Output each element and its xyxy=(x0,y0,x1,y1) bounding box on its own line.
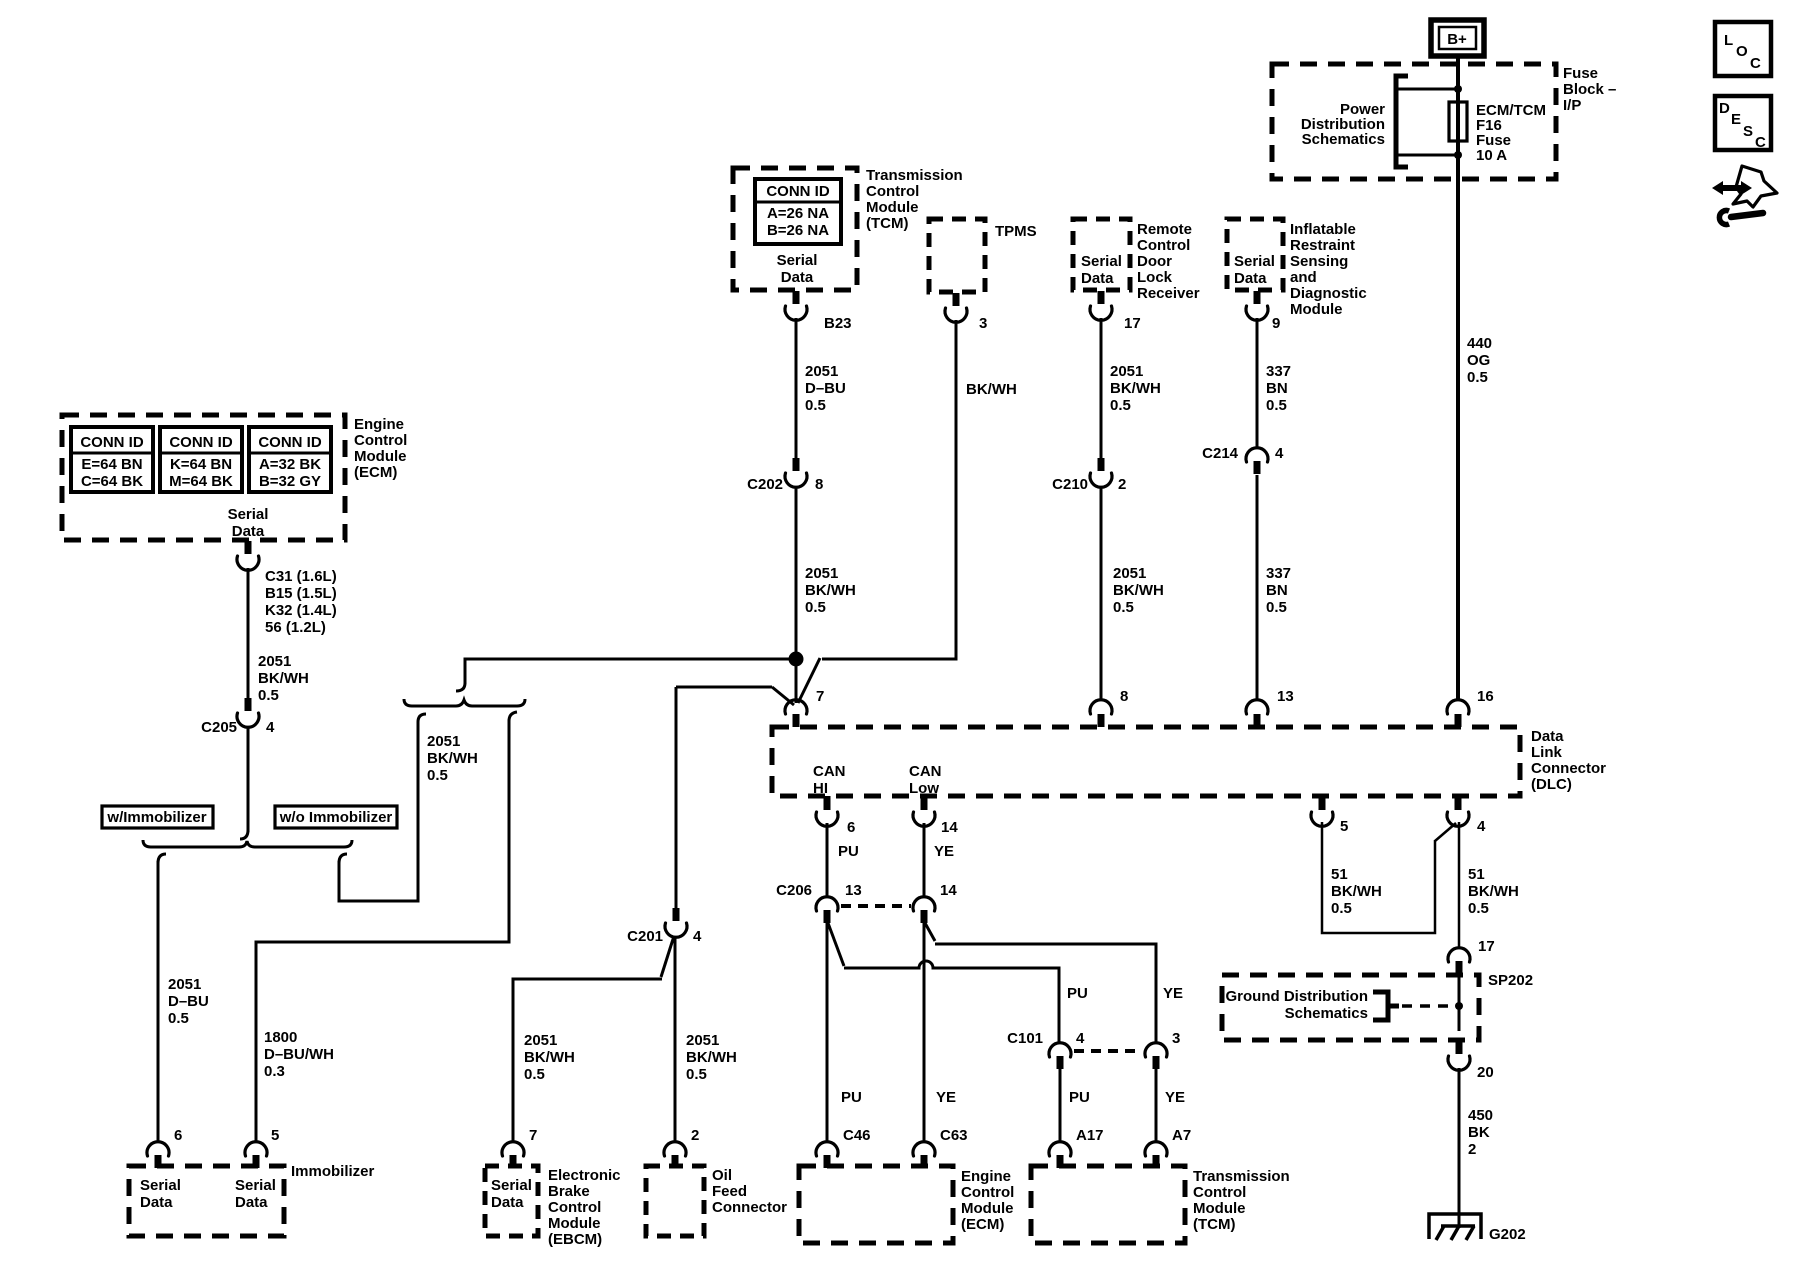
wire label 2051 BK/WH 0.5 xyxy=(258,653,309,704)
wire label 2051 D-BU 0.5 xyxy=(168,976,209,1027)
wire B+ to DLC pin 16 (440 OG) xyxy=(1456,56,1460,701)
svg-text:BK: BK xyxy=(1468,1124,1490,1141)
ground distribution bracket xyxy=(1373,992,1399,1020)
svg-text:Restraint: Restraint xyxy=(1290,237,1355,254)
svg-text:16: 16 xyxy=(1477,688,1494,705)
wire C206 14 to ECM C63 (YE) xyxy=(923,923,926,1143)
connector C210 pin 2 xyxy=(1052,458,1126,493)
svg-text:(TCM): (TCM) xyxy=(1193,1216,1235,1233)
splice SP202 pin 17 connector xyxy=(1448,938,1495,974)
splice box pin 20 connector xyxy=(1448,1041,1494,1081)
wire TPMS pin 3 down (BK/WH) xyxy=(822,320,956,659)
svg-text:Control: Control xyxy=(354,432,407,449)
wire diagonal into DLC pin 7 from right xyxy=(798,658,820,703)
connector C202 pin 8 xyxy=(747,458,823,493)
svg-text:0.5: 0.5 xyxy=(524,1066,545,1083)
ECM pin C63 connector xyxy=(913,1127,968,1168)
svg-text:D–BU: D–BU xyxy=(805,380,846,397)
svg-text:D–BU/WH: D–BU/WH xyxy=(264,1046,334,1063)
svg-text:Serial: Serial xyxy=(491,1177,532,1194)
svg-text:14: 14 xyxy=(941,819,958,836)
DLC CAN HI label xyxy=(813,763,846,797)
option brace lower xyxy=(143,840,352,847)
remote control door lock receiver serial data dashed box xyxy=(1073,219,1130,290)
svg-text:2051: 2051 xyxy=(258,653,291,670)
EBCM module label xyxy=(548,1167,621,1248)
w/o Immobilizer option box xyxy=(275,806,397,828)
svg-text:OG: OG xyxy=(1467,352,1490,369)
transmission control module (TCM) dashed box xyxy=(733,168,857,290)
svg-text:Module: Module xyxy=(548,1215,601,1232)
svg-text:440: 440 xyxy=(1467,335,1492,352)
svg-text:I/P: I/P xyxy=(1563,97,1581,114)
ECM CONN ID table K/M xyxy=(160,427,242,492)
svg-text:E=64 BN: E=64 BN xyxy=(81,456,142,473)
svg-text:Module: Module xyxy=(354,448,407,465)
svg-text:2051: 2051 xyxy=(168,976,201,993)
svg-text:2051: 2051 xyxy=(1110,363,1143,380)
svg-text:51: 51 xyxy=(1468,866,1485,883)
svg-text:S: S xyxy=(1743,123,1753,140)
svg-text:C: C xyxy=(1750,55,1761,72)
svg-text:6: 6 xyxy=(174,1127,182,1144)
svg-text:0.5: 0.5 xyxy=(805,599,826,616)
svg-text:Electronic: Electronic xyxy=(548,1167,621,1184)
wire bracket to fuse top xyxy=(1398,88,1458,91)
wire diagonal into DLC pin 7 from left xyxy=(772,687,794,705)
svg-text:BK/WH: BK/WH xyxy=(524,1049,575,1066)
svg-text:Low: Low xyxy=(909,780,939,797)
svg-text:17: 17 xyxy=(1478,938,1495,955)
wire C201 branch horizontal xyxy=(676,686,772,689)
wire label 337 BN 0.5 xyxy=(1266,565,1291,616)
svg-text:Link: Link xyxy=(1531,744,1562,761)
pin variant label C31/B15/K32/56 xyxy=(265,568,337,636)
immobilizer pin 6 connector xyxy=(147,1127,182,1168)
wire w/Immobilizer branch to pin 6 (2051 D-BU) xyxy=(158,854,166,1143)
battery feed B+ symbol xyxy=(1431,20,1484,56)
svg-text:Data: Data xyxy=(1531,728,1564,745)
svg-text:SP202: SP202 xyxy=(1488,972,1533,989)
wire label 2051 BK/WH 0.5 xyxy=(686,1032,737,1083)
ground distribution schematics dashed box xyxy=(1222,975,1479,1040)
svg-text:7: 7 xyxy=(816,688,824,705)
wire ECM pin down xyxy=(247,568,250,698)
svg-text:Remote: Remote xyxy=(1137,221,1192,238)
TPMS pin 3 connector xyxy=(945,293,987,332)
svg-text:CONN ID: CONN ID xyxy=(80,434,144,451)
svg-text:Data: Data xyxy=(1234,270,1267,287)
ECM module label xyxy=(354,416,407,481)
svg-text:56 (1.2L): 56 (1.2L) xyxy=(265,619,326,636)
wire through splice box xyxy=(1458,975,1461,1031)
svg-text:Fuse: Fuse xyxy=(1563,65,1598,82)
svg-text:Brake: Brake xyxy=(548,1183,590,1200)
svg-text:Data: Data xyxy=(140,1194,173,1211)
svg-text:0.5: 0.5 xyxy=(1331,900,1352,917)
DLC pin 13 connector xyxy=(1246,688,1294,727)
connector C206 pin 13 xyxy=(776,882,862,923)
svg-text:10 A: 10 A xyxy=(1476,147,1507,164)
svg-text:Ground Distribution: Ground Distribution xyxy=(1226,988,1368,1005)
svg-text:(EBCM): (EBCM) xyxy=(548,1231,602,1248)
svg-text:Receiver: Receiver xyxy=(1137,285,1200,302)
svg-text:5: 5 xyxy=(1340,818,1348,835)
svg-text:9: 9 xyxy=(1272,315,1280,332)
svg-text:BK/WH: BK/WH xyxy=(1110,380,1161,397)
svg-text:0.3: 0.3 xyxy=(264,1063,285,1080)
svg-text:Immobilizer: Immobilizer xyxy=(291,1163,375,1180)
svg-text:0.5: 0.5 xyxy=(1467,369,1488,386)
transmission control module bottom dashed box xyxy=(1031,1166,1185,1243)
svg-text:C46: C46 xyxy=(843,1127,871,1144)
svg-text:BK/WH: BK/WH xyxy=(1113,582,1164,599)
EBCM serial data dashed box xyxy=(485,1166,538,1236)
ECM bottom module label xyxy=(961,1168,1014,1233)
svg-text:C31 (1.6L): C31 (1.6L) xyxy=(265,568,337,585)
svg-text:D–BU: D–BU xyxy=(168,993,209,1010)
svg-text:4: 4 xyxy=(1477,818,1486,835)
DESC legend box xyxy=(1715,96,1771,151)
svg-text:w/o Immobilizer: w/o Immobilizer xyxy=(279,809,393,826)
data link connector (DLC) dashed box xyxy=(772,727,1520,796)
immobilizer pin 5 connector xyxy=(245,1127,279,1168)
connector C206 pin 14 xyxy=(913,882,957,923)
svg-text:2051: 2051 xyxy=(524,1032,557,1049)
fuse F16 value label xyxy=(1476,102,1546,164)
svg-text:Serial: Serial xyxy=(235,1177,276,1194)
wire label 337 BN 0.5 xyxy=(1266,363,1291,414)
wire junction down to DLC pin 7 xyxy=(795,659,798,703)
svg-text:CONN ID: CONN ID xyxy=(766,183,830,200)
svg-text:A17: A17 xyxy=(1076,1127,1104,1144)
svg-text:0.5: 0.5 xyxy=(1110,397,1131,414)
TCM bottom module label xyxy=(1193,1168,1290,1233)
navigation arrow and wrench icon xyxy=(1712,166,1777,224)
wire SP202 to G202 (450 BK) xyxy=(1458,1068,1461,1228)
wire C214 to DLC pin 13 (337 BN) xyxy=(1256,475,1259,701)
RCDLR serial data label xyxy=(1081,253,1122,287)
SDM module label xyxy=(1290,221,1367,318)
svg-text:Data: Data xyxy=(232,523,265,540)
svg-text:0.5: 0.5 xyxy=(805,397,826,414)
svg-text:Connector: Connector xyxy=(1531,760,1606,777)
EBCM serial data label xyxy=(491,1177,532,1211)
svg-text:2051: 2051 xyxy=(805,565,838,582)
wire label 2051 BK/WH 0.5 xyxy=(1110,363,1161,414)
svg-text:(DLC): (DLC) xyxy=(1531,776,1572,793)
power distribution bracket xyxy=(1396,76,1408,167)
oil feed connector dashed box xyxy=(646,1166,704,1236)
wire label 1800 D-BU/WH 0.3 xyxy=(264,1029,334,1080)
svg-text:C=64 BK: C=64 BK xyxy=(81,473,143,490)
svg-text:13: 13 xyxy=(1277,688,1294,705)
engine control module (ECM) dashed box xyxy=(62,415,345,540)
w/Immobilizer option box xyxy=(102,806,213,828)
svg-text:O: O xyxy=(1736,43,1748,60)
ECM serial data label xyxy=(228,506,269,540)
svg-text:Module: Module xyxy=(1290,301,1343,318)
svg-text:(ECM): (ECM) xyxy=(354,464,397,481)
wire SDM 9 to C214 (337 BN) xyxy=(1256,318,1259,449)
svg-text:1800: 1800 xyxy=(264,1029,297,1046)
RCDLR module label xyxy=(1137,221,1200,302)
fuse block I/P dashed box xyxy=(1272,64,1556,179)
svg-text:CONN ID: CONN ID xyxy=(258,434,322,451)
svg-text:Control: Control xyxy=(1193,1184,1246,1201)
svg-text:and: and xyxy=(1290,269,1317,286)
svg-text:B15 (1.5L): B15 (1.5L) xyxy=(265,585,337,602)
svg-text:Serial: Serial xyxy=(1081,253,1122,270)
svg-text:2051: 2051 xyxy=(805,363,838,380)
fuse block label xyxy=(1563,65,1616,114)
svg-text:BK/WH: BK/WH xyxy=(805,582,856,599)
DLC pin 4 connector xyxy=(1447,796,1486,835)
svg-text:BN: BN xyxy=(1266,380,1288,397)
svg-text:0.5: 0.5 xyxy=(1113,599,1134,616)
svg-text:0.5: 0.5 xyxy=(1266,397,1287,414)
C101 dashed connector line xyxy=(1074,1049,1142,1053)
wire label 2051 BK/WH 0.5 xyxy=(524,1032,575,1083)
wire C101 4 to TCM A17 (PU) xyxy=(1059,1069,1062,1143)
svg-text:0.5: 0.5 xyxy=(1266,599,1287,616)
wire DLC 14 to C206 14 (YE) xyxy=(923,823,926,898)
wire label 440 OG 0.5 xyxy=(1467,335,1492,386)
svg-text:Transmission: Transmission xyxy=(866,167,963,184)
svg-text:2051: 2051 xyxy=(686,1032,719,1049)
fuse F16 ECM/TCM 10A xyxy=(1449,102,1467,141)
wire bracket to fuse bottom xyxy=(1398,154,1458,157)
wire label 450 BK 2 xyxy=(1468,1107,1493,1158)
svg-text:5: 5 xyxy=(271,1127,279,1144)
svg-text:8: 8 xyxy=(1120,688,1128,705)
svg-text:BN: BN xyxy=(1266,582,1288,599)
svg-text:Control: Control xyxy=(1137,237,1190,254)
wire w/o Immobilizer branch xyxy=(339,714,426,901)
svg-text:G202: G202 xyxy=(1489,1226,1526,1243)
wire C210 to DLC pin 8 (2051 BK/WH) xyxy=(1100,487,1103,701)
svg-text:Control: Control xyxy=(866,183,919,200)
svg-text:YE: YE xyxy=(934,843,954,860)
svg-text:YE: YE xyxy=(936,1089,956,1106)
svg-text:Engine: Engine xyxy=(961,1168,1011,1185)
svg-text:Serial: Serial xyxy=(777,252,818,269)
svg-text:3: 3 xyxy=(979,315,987,332)
svg-text:8: 8 xyxy=(815,476,823,493)
svg-text:2: 2 xyxy=(1118,476,1126,493)
svg-text:BK/WH: BK/WH xyxy=(1331,883,1382,900)
svg-text:BK/WH: BK/WH xyxy=(1468,883,1519,900)
svg-text:E: E xyxy=(1731,111,1741,128)
TCM CONN ID table xyxy=(755,179,841,244)
wire label 2051 D-BU 0.5 xyxy=(805,363,846,414)
svg-text:Connector: Connector xyxy=(712,1199,787,1216)
svg-text:CAN: CAN xyxy=(909,763,942,780)
svg-text:Diagnostic: Diagnostic xyxy=(1290,285,1367,302)
svg-text:337: 337 xyxy=(1266,363,1291,380)
ECM CONN ID table E/C xyxy=(71,427,153,492)
svg-text:Sensing: Sensing xyxy=(1290,253,1348,270)
svg-text:(TCM): (TCM) xyxy=(866,215,908,232)
wire C101 3 to TCM A7 (YE) xyxy=(1155,1069,1158,1143)
wire C206 13 branch to C101 4 (PU) xyxy=(828,923,1059,1044)
svg-text:M=64 BK: M=64 BK xyxy=(169,473,233,490)
svg-text:Data: Data xyxy=(1081,270,1114,287)
inflatable restraint SDM serial data dashed box xyxy=(1227,219,1283,290)
svg-text:Feed: Feed xyxy=(712,1183,747,1200)
wire down to C201 xyxy=(675,687,678,908)
connector C214 pin 4 xyxy=(1202,445,1284,474)
immobilizer serial data label 1 xyxy=(140,1177,181,1211)
svg-text:C202: C202 xyxy=(747,476,783,493)
svg-text:Schematics: Schematics xyxy=(1285,1005,1368,1022)
wire label 2051 BK/WH 0.5 xyxy=(805,565,856,616)
DLC CAN Low label xyxy=(909,763,942,797)
node fuse top xyxy=(1454,85,1462,93)
svg-text:D: D xyxy=(1719,100,1730,117)
oil feed pin 2 connector xyxy=(664,1127,699,1168)
RCDLR pin 17 connector xyxy=(1090,291,1141,332)
svg-text:PU: PU xyxy=(841,1089,862,1106)
wire brace to serial data junction (2051 BK/WH) xyxy=(456,659,792,691)
svg-text:BK/WH: BK/WH xyxy=(427,750,478,767)
svg-text:4: 4 xyxy=(1076,1030,1085,1047)
ECM pin C46 connector xyxy=(816,1127,871,1168)
svg-text:Serial: Serial xyxy=(1234,253,1275,270)
svg-text:B+: B+ xyxy=(1447,31,1467,48)
ground G202 symbol xyxy=(1429,1214,1481,1240)
svg-text:A=32 BK: A=32 BK xyxy=(259,456,321,473)
wire C206 13 to ECM C46 (PU) xyxy=(826,923,829,1143)
wire RCDLR 17 to C210 (2051 BK/WH) xyxy=(1100,318,1103,458)
svg-text:2: 2 xyxy=(691,1127,699,1144)
svg-text:Control: Control xyxy=(961,1184,1014,1201)
svg-text:C63: C63 xyxy=(940,1127,968,1144)
svg-text:0.5: 0.5 xyxy=(1468,900,1489,917)
svg-text:BK/WH: BK/WH xyxy=(686,1049,737,1066)
immobilizer serial data label 2 xyxy=(235,1177,276,1211)
C206 dashed connector line xyxy=(841,904,911,908)
svg-text:PU: PU xyxy=(1067,985,1088,1002)
wire DLC 6 to C206 13 (PU) xyxy=(826,823,829,898)
wire DLC 5 loop (51 BK/WH) xyxy=(1322,822,1456,933)
oil feed connector label xyxy=(712,1167,787,1216)
svg-text:4: 4 xyxy=(1275,445,1284,462)
ECM CONN ID table A/B xyxy=(249,427,331,492)
svg-text:20: 20 xyxy=(1477,1064,1494,1081)
svg-text:Serial: Serial xyxy=(228,506,269,523)
svg-text:13: 13 xyxy=(845,882,862,899)
wire C201 to oil feed connector pin 2 (2051 BK/WH) xyxy=(674,937,677,1143)
connector C101 pin 3 xyxy=(1145,1030,1180,1069)
svg-text:Engine: Engine xyxy=(354,416,404,433)
svg-text:0.5: 0.5 xyxy=(168,1010,189,1027)
svg-text:TPMS: TPMS xyxy=(995,223,1037,240)
svg-text:Data: Data xyxy=(491,1194,524,1211)
SDM pin 9 connector xyxy=(1246,291,1280,332)
svg-text:Module: Module xyxy=(961,1200,1014,1217)
connector C201 pin 4 xyxy=(627,908,702,945)
svg-text:2: 2 xyxy=(1468,1141,1476,1158)
svg-text:C201: C201 xyxy=(627,928,663,945)
svg-text:A=26 NA: A=26 NA xyxy=(767,205,829,222)
wire TCM B23 to C202 (2051 D-BU) xyxy=(795,318,798,458)
SDM serial data label xyxy=(1234,253,1275,287)
svg-text:Block –: Block – xyxy=(1563,81,1616,98)
wire label 51 BK/WH 0.5 xyxy=(1331,866,1382,917)
svg-text:L: L xyxy=(1724,32,1733,49)
power distribution schematics label xyxy=(1301,101,1385,148)
DLC pin 6 connector xyxy=(816,796,855,836)
DLC label xyxy=(1531,728,1606,793)
svg-text:4: 4 xyxy=(266,719,275,736)
svg-text:C: C xyxy=(1755,134,1766,151)
engine control module bottom dashed box xyxy=(799,1166,953,1243)
LOC legend box xyxy=(1715,22,1771,76)
svg-text:2051: 2051 xyxy=(427,733,460,750)
DLC pin 5 connector xyxy=(1311,796,1348,835)
svg-text:CAN: CAN xyxy=(813,763,846,780)
svg-text:17: 17 xyxy=(1124,315,1141,332)
svg-text:7: 7 xyxy=(529,1127,537,1144)
wire C205 to option brace xyxy=(240,727,248,839)
svg-text:B23: B23 xyxy=(824,315,852,332)
svg-text:PU: PU xyxy=(1069,1089,1090,1106)
svg-text:C214: C214 xyxy=(1202,445,1239,462)
svg-text:B=32 GY: B=32 GY xyxy=(259,473,321,490)
svg-text:14: 14 xyxy=(940,882,957,899)
DLC pin 14 connector xyxy=(913,796,958,836)
svg-text:51: 51 xyxy=(1331,866,1348,883)
wire C202 to junction (2051 BK/WH) xyxy=(795,487,798,655)
immobilizer dashed box xyxy=(129,1166,284,1236)
wire C206 14 branch to C101 3 (YE) xyxy=(925,923,1156,1044)
svg-text:C210: C210 xyxy=(1052,476,1088,493)
svg-text:K32 (1.4L): K32 (1.4L) xyxy=(265,602,337,619)
DLC pin 7 connector xyxy=(785,688,824,727)
node fuse bottom xyxy=(1454,151,1462,159)
TCM pin A7 connector xyxy=(1145,1127,1191,1168)
svg-text:Oil: Oil xyxy=(712,1167,732,1184)
TCM serial data label xyxy=(777,252,818,286)
svg-text:B=26 NA: B=26 NA xyxy=(767,222,829,239)
wire DLC 4 to SP202 (51 BK/WH) xyxy=(1458,822,1461,949)
svg-text:Data: Data xyxy=(781,269,814,286)
svg-text:0.5: 0.5 xyxy=(258,687,279,704)
svg-text:Lock: Lock xyxy=(1137,269,1173,286)
svg-text:Serial: Serial xyxy=(140,1177,181,1194)
svg-text:w/Immobilizer: w/Immobilizer xyxy=(106,809,206,826)
svg-text:YE: YE xyxy=(1163,985,1183,1002)
svg-text:Schematics: Schematics xyxy=(1302,131,1385,148)
dashed link bracket to SP202 xyxy=(1402,1004,1452,1008)
svg-text:PU: PU xyxy=(838,843,859,860)
svg-text:YE: YE xyxy=(1165,1089,1185,1106)
option brace upper xyxy=(404,699,525,706)
svg-text:Transmission: Transmission xyxy=(1193,1168,1290,1185)
svg-text:3: 3 xyxy=(1172,1030,1180,1047)
svg-text:Inflatable: Inflatable xyxy=(1290,221,1356,238)
connector C101 pin 4 xyxy=(1007,1030,1085,1069)
wire label 51 BK/WH 0.5 xyxy=(1468,866,1519,917)
svg-text:Door: Door xyxy=(1137,253,1172,270)
svg-text:Module: Module xyxy=(1193,1200,1246,1217)
svg-text:0.5: 0.5 xyxy=(686,1066,707,1083)
TPMS dashed box xyxy=(929,219,985,292)
svg-text:BK/WH: BK/WH xyxy=(966,381,1017,398)
DLC pin 16 connector xyxy=(1447,688,1494,727)
svg-text:HI: HI xyxy=(813,780,828,797)
